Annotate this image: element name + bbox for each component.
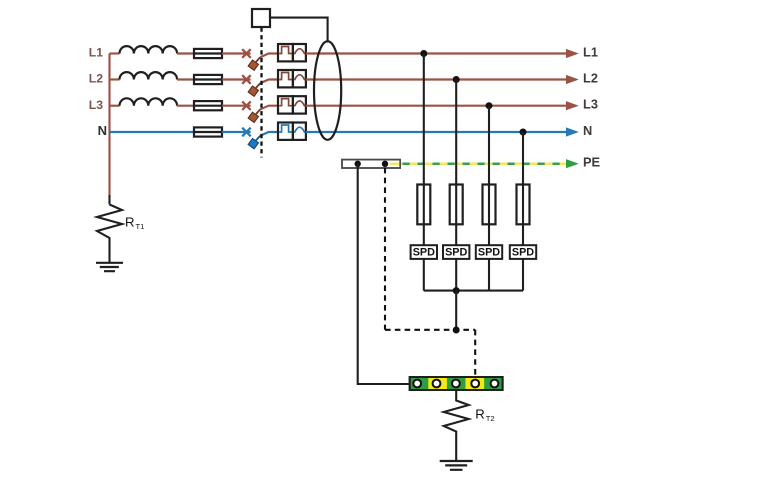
node L3 tap (486, 102, 493, 109)
svg-text:SPD: SPD (413, 247, 435, 259)
svg-text:L2: L2 (583, 70, 598, 85)
wire star point to RT1 (108, 195, 110, 205)
disconnector blade L1 (248, 57, 260, 70)
svg-text:PE: PE (583, 155, 601, 170)
wire L2 filter to arrow (306, 78, 567, 80)
RCD trip unit box (252, 9, 270, 27)
svg-text:N: N (98, 123, 107, 138)
svg-text:SPD: SPD (512, 247, 534, 259)
filter box sine-wave N (293, 123, 306, 140)
filter box impulse-wave L2 (278, 70, 293, 87)
arrow N (566, 127, 579, 136)
disconnector blade L3 (248, 109, 260, 122)
svg-text:R: R (125, 214, 135, 229)
svg-text:N: N (583, 123, 592, 138)
wire MET to PE busbar (358, 164, 410, 384)
wire SPD branch L1 (423, 54, 425, 291)
filter box impulse-wave N (278, 123, 293, 140)
SPD fuse 1 (417, 185, 430, 225)
wire L3 blade jog to filter (260, 106, 278, 110)
fuse L3 (194, 101, 222, 110)
wire N from star point (110, 131, 195, 133)
svg-text:R: R (475, 407, 485, 422)
label RT2 (475, 407, 494, 424)
SPD box 2 (443, 245, 469, 259)
main earthing terminal box border overdraw (342, 160, 400, 168)
PE conductor yellow base (390, 162, 567, 165)
svg-text:L2: L2 (89, 72, 103, 86)
node bond junction (453, 327, 460, 334)
node N tap (520, 129, 527, 136)
wire: transformer star-point vertical (108, 54, 110, 196)
wire L2 blade jog to filter (260, 80, 278, 84)
trip linkage dashed line (260, 28, 262, 158)
svg-text:T1: T1 (136, 222, 145, 231)
node SPD bus (453, 287, 460, 294)
wire L2 fuse to contact (222, 78, 251, 80)
wire L3 winding to fuse (177, 105, 194, 107)
SPD fuse 3 (483, 185, 496, 225)
wire SPD branch L3 (488, 106, 490, 291)
SPD fuse 2 conductor (455, 185, 457, 225)
disconnector contact X N (242, 128, 251, 137)
equipotential bond dashed to busbar (474, 330, 476, 378)
SPD fuse 1 conductor (423, 185, 425, 225)
busbar terminal 2 (433, 380, 441, 388)
busbar terminal 4 (471, 380, 479, 388)
transformer winding L3 (120, 98, 178, 105)
fuse L2 (194, 75, 222, 84)
node MET 2 (382, 161, 388, 167)
wire L1 from star point (110, 52, 120, 54)
busbar terminal 1 (413, 380, 421, 388)
wire L2 winding to fuse (177, 78, 194, 80)
fuse N (194, 127, 222, 136)
wire N filter to arrow (306, 131, 567, 133)
wire SPD branch N (522, 132, 524, 291)
ground RT2 earth electrode (440, 461, 473, 470)
SPD fuse 4 (517, 185, 530, 225)
wire L3 fuse to contact (222, 105, 251, 107)
filter box impulse-wave L3 (278, 96, 293, 113)
SPD fuse 4 conductor (522, 185, 524, 225)
resistor RT2 (444, 390, 469, 461)
disconnector contact X L1 (242, 49, 251, 58)
wire SPD branch L2 (455, 80, 457, 291)
svg-text:L3: L3 (583, 97, 598, 112)
RCD toroid core (314, 41, 341, 140)
node MET 1 (355, 161, 361, 167)
wire L1 fuse to contact (222, 52, 251, 54)
arrow L3 (566, 101, 579, 110)
equipotential bond dashed down (384, 168, 386, 330)
disconnector blade N (248, 136, 260, 149)
label RT1 (125, 214, 144, 231)
node L1 tap (420, 50, 427, 57)
wire L3 filter to arrow (306, 105, 567, 107)
SPD common bus wire (424, 290, 523, 292)
equipotential bond dashed across (385, 329, 475, 331)
wire N fuse to contact (222, 131, 251, 133)
arrow L1 (566, 49, 579, 58)
filter box sine-wave L3 (293, 96, 306, 113)
PE conductor green dashes (403, 162, 568, 165)
busbar terminal 3 (452, 380, 460, 388)
svg-text:L1: L1 (89, 46, 103, 60)
wire L3 from star point (110, 105, 120, 107)
filter box sine-wave L2 (293, 70, 306, 87)
disconnector contact X L3 (242, 101, 251, 110)
arrow PE (566, 159, 579, 168)
wire L1 filter to arrow (306, 52, 567, 54)
SPD box 4 (510, 245, 536, 259)
busbar terminal 5 (491, 380, 499, 388)
main earthing terminal box (342, 160, 400, 168)
PE busbar terminal block (410, 377, 503, 390)
wire trip unit to toroid core (270, 18, 328, 43)
fuse L1 (194, 49, 222, 58)
SPD box 1 (411, 245, 437, 259)
resistor RT1 (97, 205, 122, 263)
wire L1 blade jog to filter (260, 54, 278, 58)
disconnector blade L2 (248, 83, 260, 96)
disconnector contact X L2 (242, 75, 251, 84)
svg-text:SPD: SPD (445, 247, 467, 259)
wire N blade jog to filter (260, 132, 278, 136)
filter box sine-wave L1 (293, 44, 306, 61)
transformer winding L1 (120, 46, 178, 53)
arrow L2 (566, 75, 579, 84)
SPD fuse 2 (450, 185, 463, 225)
svg-text:L3: L3 (89, 98, 103, 112)
SPD fuse 3 conductor (488, 185, 490, 225)
wire L1 winding to fuse (177, 52, 194, 54)
svg-text:T2: T2 (486, 414, 495, 423)
svg-text:L1: L1 (583, 44, 598, 59)
ground RT1 earth electrode (96, 263, 123, 271)
transformer winding L2 (120, 72, 178, 79)
SPD box 3 (476, 245, 502, 259)
node L2 tap (453, 76, 460, 83)
wire SPD bus to bond node (455, 291, 457, 330)
wire L2 from star point (110, 78, 120, 80)
filter box impulse-wave L1 (278, 44, 293, 61)
svg-text:SPD: SPD (478, 247, 500, 259)
